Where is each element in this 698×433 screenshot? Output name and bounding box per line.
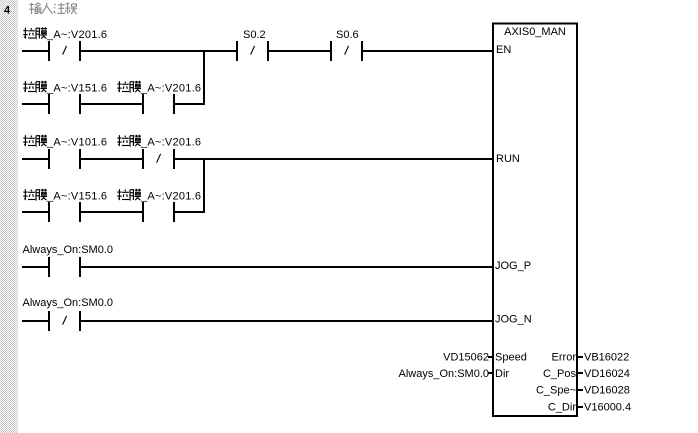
- svg-text:S0.6: S0.6: [336, 29, 359, 41]
- svg-text:Always_On:SM0.0: Always_On:SM0.0: [23, 244, 113, 256]
- svg-text:JOG_P: JOG_P: [495, 260, 531, 272]
- svg-text:C_Dir: C_Dir: [548, 402, 576, 414]
- svg-text:_A~:V201.6: _A~:V201.6: [140, 83, 201, 95]
- svg-text:V16000.4: V16000.4: [584, 402, 631, 414]
- svg-text:_A~:V151.6: _A~:V151.6: [46, 83, 107, 95]
- svg-text:Always_On:SM0.0: Always_On:SM0.0: [23, 297, 113, 309]
- svg-text:VB16022: VB16022: [584, 352, 629, 364]
- svg-text:RUN: RUN: [496, 153, 520, 165]
- svg-text:Error: Error: [552, 352, 577, 364]
- svg-text:VD16028: VD16028: [584, 385, 630, 397]
- svg-text:EN: EN: [496, 44, 511, 56]
- svg-text:Speed: Speed: [495, 352, 527, 364]
- svg-text:4: 4: [4, 5, 11, 17]
- svg-text:JOG_N: JOG_N: [495, 314, 532, 326]
- svg-text:_A~:V201.6: _A~:V201.6: [140, 191, 201, 203]
- svg-text:Dir: Dir: [495, 368, 509, 380]
- svg-text:_A~:V101.6: _A~:V101.6: [46, 137, 107, 149]
- svg-text:_A~:V201.6: _A~:V201.6: [46, 29, 107, 41]
- svg-text:S0.2: S0.2: [243, 29, 266, 41]
- svg-text:AXIS0_MAN: AXIS0_MAN: [504, 26, 566, 38]
- svg-text:C_Spe~: C_Spe~: [536, 385, 576, 397]
- svg-text:_A~:V151.6: _A~:V151.6: [46, 191, 107, 203]
- svg-text:VD16024: VD16024: [584, 368, 630, 380]
- svg-text:C_Pos: C_Pos: [543, 368, 577, 380]
- svg-text:VD15062: VD15062: [443, 352, 489, 364]
- svg-text:Always_On:SM0.0: Always_On:SM0.0: [399, 368, 489, 380]
- svg-text:_A~:V201.6: _A~:V201.6: [140, 137, 201, 149]
